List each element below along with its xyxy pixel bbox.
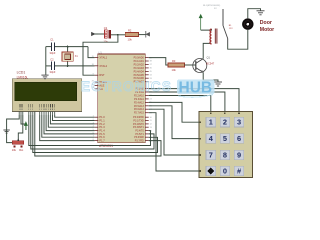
- LCD LM016L bezel: [12, 79, 82, 112]
- wire collector to relay coil: [203, 43, 211, 58]
- wire RW to P3.5: [31, 115, 154, 149]
- power arrow VDD: [24, 122, 27, 130]
- svg-text:P2.7/A15: P2.7/A15: [134, 112, 145, 115]
- resistor R3: [168, 63, 184, 67]
- wire VSS to ground: [7, 115, 20, 130]
- MCU left pins: [92, 56, 108, 143]
- svg-text:LCD1: LCD1: [17, 71, 26, 75]
- potentiometer RV1: [12, 139, 23, 148]
- keypad body: [199, 112, 253, 178]
- wire E to P3.6: [33, 115, 158, 153]
- svg-text:AT89C51: AT89C51: [99, 144, 113, 148]
- relay coil: [210, 29, 217, 45]
- power arrow 12V (relay): [199, 15, 202, 31]
- keypad keys: [206, 117, 244, 175]
- node crystal bottom: [67, 65, 69, 67]
- svg-text:#: #: [237, 166, 241, 175]
- ground (emitter): [214, 81, 222, 83]
- wire R3 to base: [184, 64, 195, 66]
- svg-text:5: 5: [223, 134, 227, 143]
- svg-text:Rst: Rst: [19, 148, 23, 152]
- wire contrast to P3.7: [35, 112, 161, 157]
- wire contact to motor: [228, 30, 248, 49]
- svg-text:10k: 10k: [12, 148, 17, 152]
- svg-text:P1.6: P1.6: [99, 135, 105, 139]
- node crystal top: [67, 46, 69, 48]
- svg-text:RL1(RTE24005F): RL1(RTE24005F): [203, 5, 220, 7]
- svg-text:6: 6: [237, 134, 241, 143]
- wire pot left to ground rail: [7, 130, 13, 143]
- svg-text:R3: R3: [172, 59, 176, 63]
- wire rail left of caps: [45, 47, 47, 75]
- wire arrow to C3: [95, 33, 105, 35]
- svg-text:XTAL1: XTAL1: [99, 56, 107, 60]
- svg-text:XTAL2: XTAL2: [99, 64, 107, 68]
- svg-text:3: 3: [237, 118, 241, 127]
- svg-text:10u: 10u: [104, 40, 109, 44]
- capacitor C3: [105, 30, 112, 39]
- wire motor to ground: [248, 9, 261, 19]
- LCD pins: [19, 112, 55, 116]
- wire P0.0 to R3: [149, 58, 168, 65]
- wire emitter to ground: [203, 72, 218, 82]
- svg-text:U1: U1: [99, 51, 103, 55]
- keypad pin marks: [200, 112, 240, 172]
- svg-text:33pF: 33pF: [50, 70, 56, 74]
- wire C3 to R2: [111, 34, 125, 36]
- svg-text:2: 2: [223, 118, 227, 127]
- wire VEE to pot wiper: [18, 115, 23, 140]
- svg-text:P1.7: P1.7: [99, 139, 105, 143]
- watermark ELECTRONICS HUB: [81, 79, 215, 97]
- svg-text:RST: RST: [99, 73, 105, 77]
- transistor Q1: [193, 59, 207, 73]
- svg-text:8: 8: [223, 150, 227, 159]
- resistor R2: [125, 33, 138, 37]
- wire RST net: [83, 35, 118, 75]
- microcontroller U1 AT89C51: [98, 54, 146, 143]
- svg-text:R2: R2: [128, 28, 132, 32]
- ground (pot): [3, 129, 9, 131]
- ground arrow (reset): [92, 32, 99, 35]
- MCU right pins: [133, 57, 153, 143]
- svg-text:C1: C1: [50, 38, 54, 42]
- ground (crystal): [41, 74, 48, 76]
- wires keypad columns to P2: [149, 89, 239, 112]
- svg-text:BC547: BC547: [206, 61, 214, 65]
- motor (door motor): [242, 18, 253, 29]
- capacitor C1: [46, 42, 88, 51]
- svg-text:Door: Door: [260, 20, 272, 26]
- wire power to coil: [201, 29, 212, 30]
- ground (motor): [257, 10, 265, 12]
- wire RS to P3.4: [29, 115, 151, 146]
- svg-text:P3.7/RD: P3.7/RD: [135, 140, 144, 143]
- svg-text:7: 7: [209, 150, 213, 159]
- svg-text:P1.3: P1.3: [99, 125, 105, 129]
- power symbol (reset): [146, 31, 150, 38]
- svg-text:HUB: HUB: [179, 79, 213, 96]
- svg-text:C3: C3: [104, 26, 108, 30]
- wire R2 to power: [139, 34, 146, 36]
- svg-text:1: 1: [209, 118, 213, 127]
- wires LCD D0-D7 to P1: [40, 115, 95, 141]
- crystal X1: [62, 47, 73, 66]
- relay contact: [223, 9, 228, 44]
- svg-text:10k: 10k: [128, 38, 133, 42]
- svg-text:ECTRONICS: ECTRONICS: [81, 79, 172, 94]
- svg-text:0: 0: [223, 166, 227, 175]
- svg-text:P1.1: P1.1: [99, 119, 105, 123]
- svg-text:Q1: Q1: [207, 55, 211, 59]
- svg-text:33pF: 33pF: [50, 51, 56, 55]
- LCD pin labels: [19, 104, 55, 110]
- svg-text:Motor: Motor: [260, 27, 274, 33]
- wires keypad rows to P2: [149, 102, 199, 171]
- svg-text:C2: C2: [50, 57, 54, 61]
- LCD screen: [15, 82, 77, 101]
- wire C1 to XTAL1: [88, 47, 95, 58]
- svg-text:9: 9: [237, 150, 241, 159]
- svg-text:12V: 12V: [229, 28, 233, 30]
- capacitor C2: [46, 62, 95, 71]
- svg-text:10k: 10k: [172, 68, 177, 72]
- node RST junction: [117, 34, 119, 36]
- wire VDD to power: [21, 115, 26, 130]
